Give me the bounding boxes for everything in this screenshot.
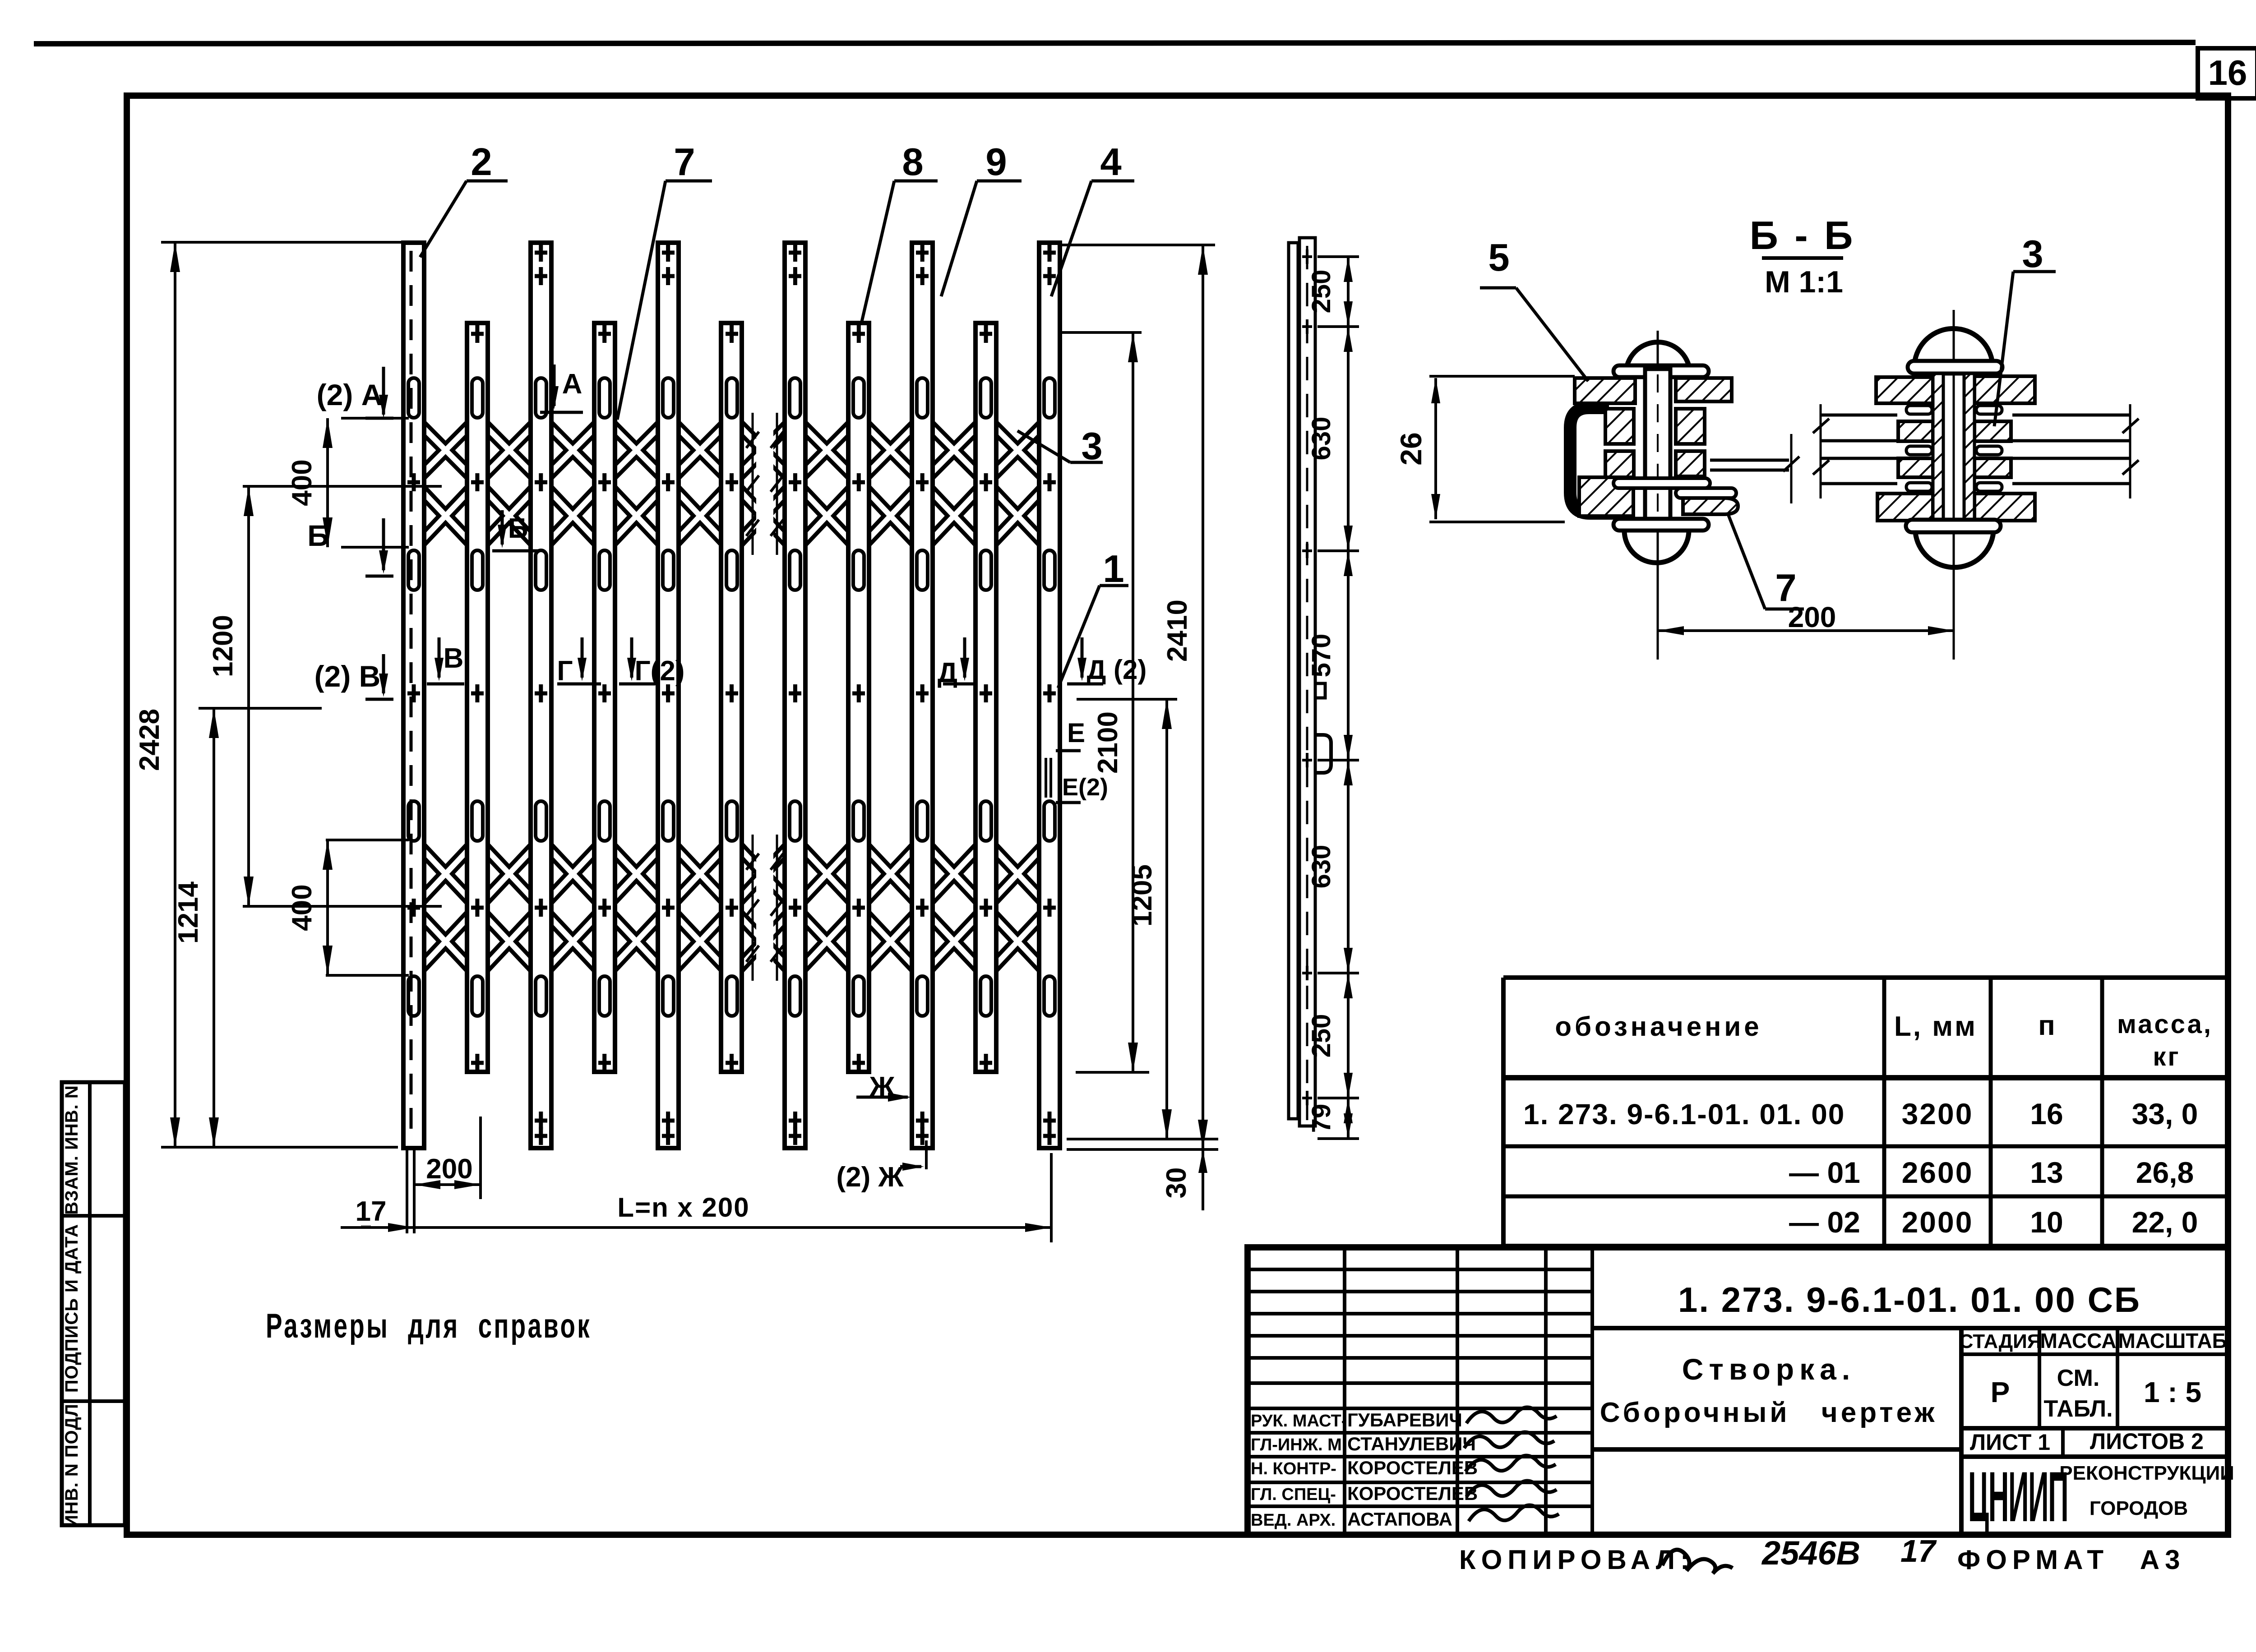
section mark В at slat 2 <box>427 637 464 684</box>
part label 8 leader <box>861 141 938 323</box>
dimension 200 <box>414 1117 481 1199</box>
Б-Б right joint: rivet bottom head <box>1915 532 1993 568</box>
svg-text:В: В <box>444 643 464 674</box>
dimension 400 upper <box>287 418 409 547</box>
svg-text:2600: 2600 <box>1902 1156 1974 1189</box>
dimension L = n x 200 <box>341 1153 1051 1242</box>
vertical slat 2: slat item 8 <box>467 323 488 1072</box>
svg-text:СТАНУЛЕВИЧ: СТАНУЛЕВИЧ <box>1347 1433 1476 1454</box>
svg-text:1200: 1200 <box>208 615 239 677</box>
section mark Г at slat 3 <box>557 637 601 687</box>
section mark Д(2) at slat 11 <box>1067 637 1146 685</box>
svg-text:ТАБЛ.: ТАБЛ. <box>2043 1396 2113 1422</box>
dimension 1205 <box>1077 699 1177 1139</box>
svg-text:КОРОСТЕЛЕВ: КОРОСТЕЛЕВ <box>1347 1483 1478 1504</box>
section mark Б left <box>307 518 393 576</box>
svg-text:РЕКОНСТРУКЦИИ: РЕКОНСТРУКЦИИ <box>2059 1462 2234 1484</box>
копировал line <box>1459 1533 2185 1575</box>
svg-text:обозначение: обозначение <box>1555 1011 1762 1042</box>
side view chain dimensions 250/630/570/630/250/79 <box>1307 257 1359 1139</box>
svg-text:ГЛ-ИНЖ. М: ГЛ-ИНЖ. М <box>1251 1435 1342 1454</box>
svg-text:— 01: — 01 <box>1789 1156 1860 1189</box>
svg-text:250: 250 <box>1307 1014 1336 1058</box>
vertical slat 8: slat item 8 <box>848 323 869 1072</box>
svg-text:2000: 2000 <box>1902 1205 1974 1239</box>
section mark Б at slat 2 <box>492 510 539 551</box>
Б-Б right joint: hatched blocks <box>1876 376 2035 521</box>
left margin inventory strip <box>62 1082 125 1528</box>
vertical slat 11: lock bar (item 4) <box>1039 243 1060 1148</box>
side view hasp bracket <box>1315 683 1325 698</box>
svg-text:Н. КОНТР-: Н. КОНТР- <box>1251 1459 1336 1478</box>
svg-text:7: 7 <box>674 141 695 184</box>
svg-text:8: 8 <box>902 141 923 184</box>
part label 3 leader <box>1017 425 1103 468</box>
svg-text:2546В: 2546В <box>1761 1534 1860 1572</box>
svg-text:Е(2): Е(2) <box>1062 774 1108 801</box>
svg-text:РУК. МАСТ-: РУК. МАСТ- <box>1251 1412 1347 1431</box>
svg-text:масса,: масса, <box>2117 1010 2213 1039</box>
svg-text:17: 17 <box>356 1196 387 1227</box>
part label 2 leader <box>420 141 508 257</box>
section mark А at slat 3 <box>540 365 583 412</box>
Б-Б right joint: slat wall sections <box>1933 374 1974 523</box>
Б-Б right joint: rivet top head <box>1914 328 1992 364</box>
svg-text:L=n x 200: L=n x 200 <box>617 1192 749 1223</box>
svg-text:Р: Р <box>1991 1376 2010 1408</box>
dimension 26 <box>1394 376 1575 522</box>
svg-text:30: 30 <box>1161 1167 1192 1199</box>
section mark (2)Ж <box>836 1140 926 1193</box>
svg-text:4: 4 <box>1100 141 1121 184</box>
parts table <box>1503 978 2228 1246</box>
svg-text:СМ.: СМ. <box>2057 1365 2100 1391</box>
section mark Д at slat 9 <box>938 637 977 688</box>
svg-text:(2) Ж: (2) Ж <box>836 1162 904 1193</box>
svg-text:1 : 5: 1 : 5 <box>2144 1376 2201 1408</box>
svg-text:Д (2): Д (2) <box>1087 655 1147 685</box>
svg-text:26,8: 26,8 <box>2136 1156 2194 1189</box>
dimension 200 (Б-Б) <box>1658 601 1954 635</box>
svg-text:630: 630 <box>1307 845 1336 889</box>
svg-text:Б: Б <box>508 513 528 544</box>
svg-text:3: 3 <box>2022 233 2043 276</box>
svg-text:МАССА: МАССА <box>2040 1329 2117 1352</box>
svg-text:16: 16 <box>2208 53 2247 92</box>
svg-text:ГЛ. СПЕЦ-: ГЛ. СПЕЦ- <box>1251 1485 1336 1504</box>
Б-Б left joint: rivet bottom head <box>1624 531 1689 563</box>
vertical slat 5: slat item 9 <box>658 243 679 1148</box>
part label 4 leader <box>1051 141 1134 296</box>
Б-Б right joint: top washer <box>1908 361 2002 374</box>
vertical slat 9: slat item 9 <box>912 243 933 1148</box>
part label 3 (Б-Б) leader <box>1994 233 2056 426</box>
dimension 30 ext lines <box>1067 1139 1218 1198</box>
Б-Б left joint: bottom washer <box>1613 519 1709 531</box>
svg-text:Г(2): Г(2) <box>635 655 685 687</box>
svg-text:200: 200 <box>426 1154 472 1185</box>
Б-Б left joint: top washer <box>1613 365 1709 377</box>
svg-text:А: А <box>562 369 582 400</box>
svg-text:Сборочный чертеж: Сборочный чертеж <box>1600 1397 1938 1428</box>
section mark Е on slat 11 <box>1056 718 1085 751</box>
part label 1 leader <box>1058 548 1128 688</box>
sheet number box 16 <box>2198 48 2256 98</box>
svg-text:п: п <box>2038 1010 2055 1041</box>
svg-text:ЛИСТ 1: ЛИСТ 1 <box>1970 1430 2050 1455</box>
svg-text:ГОРОДОВ: ГОРОДОВ <box>2090 1497 2188 1519</box>
lattice strips (полосы, item 3) pantograph bands <box>414 418 1049 975</box>
svg-text:1214: 1214 <box>173 881 204 944</box>
svg-text:ВЕД. АРХ.: ВЕД. АРХ. <box>1251 1511 1336 1530</box>
vertical slat 7: slat item 9 <box>785 243 805 1148</box>
title block <box>1248 1247 2234 1537</box>
Б-Б left joint centerline <box>1657 331 1659 660</box>
svg-text:250: 250 <box>1307 270 1336 314</box>
svg-text:(2) А: (2) А <box>317 378 383 411</box>
svg-text:10: 10 <box>2030 1205 2063 1239</box>
svg-text:ЦНИИП: ЦНИИП <box>1968 1457 2068 1537</box>
svg-text:1205: 1205 <box>1127 864 1158 927</box>
svg-text:3200: 3200 <box>1902 1097 1974 1131</box>
part label 7 leader <box>617 141 712 420</box>
svg-text:Размеры для справок: Размеры для справок <box>266 1307 592 1345</box>
svg-text:КОПИРОВАЛ:: КОПИРОВАЛ: <box>1459 1545 1695 1575</box>
svg-text:13: 13 <box>2030 1156 2063 1189</box>
svg-text:МАСШТАБ: МАСШТАБ <box>2118 1329 2227 1352</box>
svg-text:(2) В: (2) В <box>314 660 381 693</box>
part label 9 leader <box>941 141 1022 296</box>
vertical slat 1: hinge bar (item 2) <box>403 243 424 1148</box>
Б-Б left joint: hatched packing blocks <box>1575 378 1732 516</box>
svg-text:L, мм: L, мм <box>1894 1011 1977 1042</box>
svg-text:Е: Е <box>1067 718 1085 748</box>
section mark (2)А left <box>317 367 393 418</box>
section mark (2)В left <box>314 654 393 699</box>
end slats <box>0 0 0 0</box>
svg-text:ВЗАМ. ИНВ. N: ВЗАМ. ИНВ. N <box>62 1085 82 1215</box>
dimension 400 lower <box>287 840 409 975</box>
svg-text:1. 273. 9-6.1-01. 01. 00: 1. 273. 9-6.1-01. 01. 00 <box>1523 1098 1845 1131</box>
svg-text:570: 570 <box>1307 634 1336 678</box>
note размеры для справок <box>266 1307 592 1345</box>
svg-text:Г: Г <box>557 655 573 687</box>
section mark Е(2) on slat 11 <box>1056 774 1108 803</box>
vertical slat 4: slat item 8 <box>594 323 615 1072</box>
svg-text:ФОРМАТ А3: ФОРМАТ А3 <box>1957 1545 2185 1575</box>
vertical slat 10: slat item 8 <box>975 323 996 1072</box>
svg-text:ГУБАРЕВИЧ: ГУБАРЕВИЧ <box>1347 1409 1462 1431</box>
section mark Ж <box>856 1071 911 1103</box>
svg-text:Б: Б <box>307 519 328 552</box>
svg-text:2410: 2410 <box>1162 600 1193 662</box>
Б-Б right joint: through strips with breaks <box>1813 404 2139 498</box>
svg-text:200: 200 <box>1788 601 1836 633</box>
svg-text:М 1:1: М 1:1 <box>1765 265 1843 299</box>
scan artifact top line <box>34 42 2196 44</box>
section mark Г(2) at slat 4 <box>619 637 684 687</box>
slat 1 thickness ext lines <box>407 1150 414 1233</box>
section title Б-Б <box>1750 213 1856 299</box>
Б-Б left joint: hook strip item 7 <box>1676 488 1738 514</box>
svg-text:1. 273. 9-6.1-01. 01. 00 СБ: 1. 273. 9-6.1-01. 01. 00 СБ <box>1678 1280 2141 1320</box>
Б-Б left joint: strip slot <box>1613 478 1710 488</box>
svg-text:630: 630 <box>1307 417 1336 461</box>
lattice break marks (middle of view) <box>746 411 783 982</box>
svg-text:16: 16 <box>2030 1097 2063 1131</box>
svg-text:АСТАПОВА: АСТАПОВА <box>1347 1509 1452 1530</box>
svg-text:17: 17 <box>1900 1533 1937 1569</box>
dimension 17 <box>356 1196 387 1227</box>
Б-Б left joint: rivet top head <box>1626 342 1690 370</box>
svg-text:2: 2 <box>471 141 492 184</box>
dimension 1214 <box>173 708 322 1147</box>
part label 5 leader <box>1480 236 1588 381</box>
part label 7 leader <box>1728 514 1804 609</box>
Б-Б right joint: bottom washer <box>1906 520 2001 532</box>
Б-Б left joint: channel item 5 <box>1570 408 1631 513</box>
side view: leaf edge profile <box>1289 238 1315 1126</box>
dimension 2428 overall height <box>134 242 404 1147</box>
svg-text:2428: 2428 <box>134 709 165 771</box>
svg-text:КОРОСТЕЛЕВ: КОРОСТЕЛЕВ <box>1347 1457 1478 1478</box>
svg-text:22, 0: 22, 0 <box>2132 1205 2198 1239</box>
svg-text:9: 9 <box>985 141 1007 184</box>
Б-Б left joint: outgoing strip with break <box>1710 434 1799 503</box>
svg-text:2100: 2100 <box>1092 711 1123 774</box>
svg-text:— 02: — 02 <box>1789 1205 1860 1239</box>
svg-text:26: 26 <box>1394 432 1428 465</box>
svg-text:5: 5 <box>1488 236 1509 279</box>
dimension 1200 <box>208 486 442 906</box>
svg-text:Створка.: Створка. <box>1682 1352 1855 1386</box>
Б-Б right joint: strip slots <box>1906 406 2002 491</box>
vertical slat 6: slat item 8 <box>721 323 742 1072</box>
side view handle loop <box>1315 735 1331 773</box>
svg-text:400: 400 <box>287 884 318 931</box>
Б-Б right joint centerline <box>1953 310 1955 660</box>
svg-text:33, 0: 33, 0 <box>2132 1097 2198 1131</box>
dimension 2100 <box>1061 332 1149 1072</box>
vertical slat 3: slat item 9 <box>531 243 551 1148</box>
svg-text:79: 79 <box>1307 1104 1336 1133</box>
svg-text:ИНВ. N ПОДЛ.: ИНВ. N ПОДЛ. <box>62 1398 82 1528</box>
svg-text:Б - Б: Б - Б <box>1750 213 1856 258</box>
svg-text:ЛИСТОВ 2: ЛИСТОВ 2 <box>2090 1429 2204 1454</box>
svg-text:СТАДИЯ: СТАДИЯ <box>1959 1330 2042 1352</box>
svg-text:400: 400 <box>287 459 318 506</box>
dimension 2410 <box>1061 245 1215 1210</box>
svg-text:кг: кг <box>2153 1042 2180 1071</box>
Б-Б left joint: rivet pin <box>1645 369 1670 525</box>
svg-text:ПОДПИСЬ И ДАТА: ПОДПИСЬ И ДАТА <box>62 1224 82 1393</box>
